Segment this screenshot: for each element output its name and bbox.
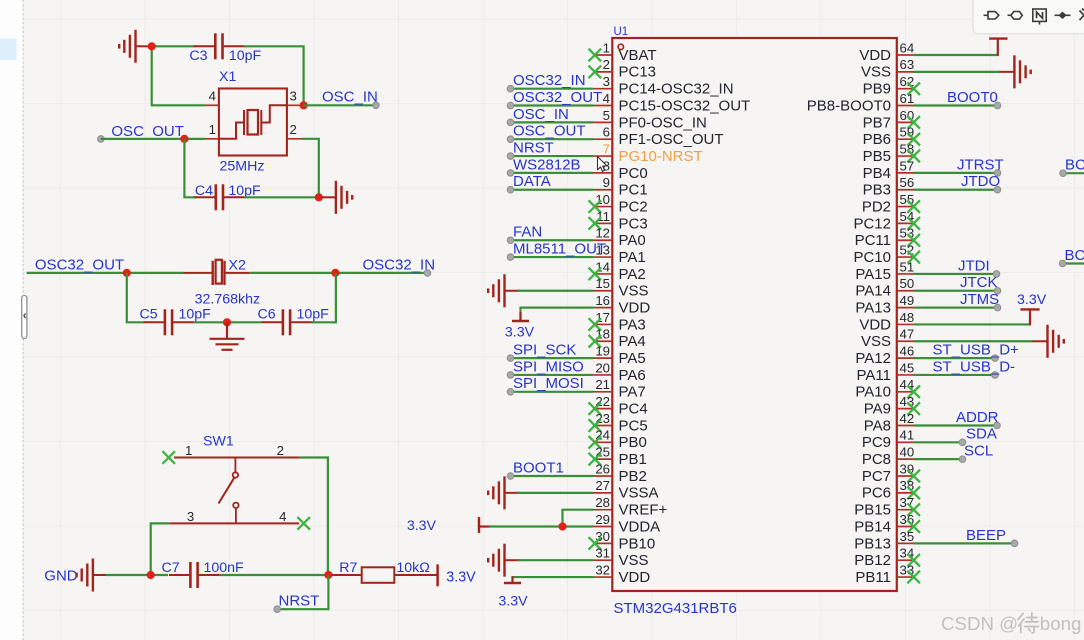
- U1 pin 54 PC12: [897, 222, 914, 224]
- svg-text:C4: C4: [195, 183, 213, 199]
- svg-text:42: 42: [900, 411, 915, 426]
- wire C7 to R7 node: [219, 574, 332, 576]
- port BOOT1: [507, 473, 514, 480]
- svg-text:PC15-OSC32_OUT: PC15-OSC32_OUT: [619, 97, 751, 114]
- ground (X1/C3 top-left): [119, 30, 151, 63]
- wire C3 junction to X1 pin4: [152, 46, 205, 105]
- U1 pin 63 VSS: [897, 71, 914, 73]
- port ST_USB_D-: [992, 372, 999, 379]
- wire down to C4: [184, 139, 196, 197]
- U1 pin1 marker: [618, 44, 623, 49]
- wire SW1 pin3 to GND node: [151, 523, 169, 572]
- U1 pin 29 VDDA: [593, 526, 612, 528]
- port OSC32_IN: [507, 85, 514, 92]
- wire SW1 pin2 to NRST node: [299, 458, 328, 573]
- U1 pin 32 VDD: [593, 576, 612, 578]
- svg-text:GND: GND: [44, 567, 78, 584]
- svg-text:PC8: PC8: [862, 451, 891, 468]
- svg-text:PA2: PA2: [619, 266, 646, 283]
- svg-text:12: 12: [595, 226, 610, 241]
- U1 pin 18 PA4: [593, 340, 612, 342]
- U1 pin 33 PB11: [897, 576, 914, 578]
- X1 pin 4: [205, 104, 219, 106]
- svg-text:JTCK: JTCK: [960, 274, 998, 291]
- U1 pin 20 PA6: [593, 374, 612, 376]
- port ML8511_OUT: [507, 254, 514, 261]
- U1 pin 60 PB7: [897, 121, 914, 123]
- port OSC_OUT: [507, 136, 514, 143]
- svg-text:ML8511_OUT: ML8511_OUT: [513, 240, 606, 257]
- svg-text:PC13: PC13: [619, 64, 657, 81]
- junction (C5/C6/gnd): [223, 318, 231, 326]
- svg-text:NRST: NRST: [513, 139, 554, 156]
- svg-text:32: 32: [595, 562, 610, 577]
- junction (gnd/SW1 pin3/C7): [147, 571, 155, 579]
- U1 pin 8 PC0: [593, 172, 612, 174]
- svg-text:3.3V: 3.3V: [407, 518, 437, 534]
- junction (pin3/OSC_IN): [300, 101, 308, 109]
- U1 pin 64 VDD: [897, 54, 914, 56]
- svg-text:JTDI: JTDI: [958, 257, 990, 274]
- left panel edge: [0, 0, 23, 640]
- svg-text:VDD: VDD: [859, 316, 891, 333]
- no-connect pin 22: [589, 402, 602, 415]
- svg-text:SCL: SCL: [964, 443, 993, 460]
- svg-text:9: 9: [603, 175, 610, 190]
- svg-text:32.768khz: 32.768khz: [195, 291, 260, 307]
- port JTRST: [994, 170, 1001, 177]
- svg-text:35: 35: [900, 529, 915, 544]
- SW1 pin 3-4 wire: [169, 522, 299, 524]
- SW1 pin4 no-connect X: [297, 517, 310, 530]
- ground (C7): [77, 559, 109, 592]
- U1 pin 10 PC2: [593, 206, 612, 208]
- svg-text:3.3V: 3.3V: [1017, 292, 1047, 308]
- svg-text:PA15: PA15: [855, 266, 891, 283]
- svg-text:PB4: PB4: [863, 165, 891, 182]
- U1 pin 39 PC7: [897, 475, 914, 477]
- SW1 pin 1-2 wire: [174, 457, 302, 459]
- port SPI_SCK: [507, 355, 514, 362]
- port SPI_MISO: [507, 372, 514, 379]
- ground (U1 pin27 VSSA): [488, 476, 520, 509]
- port OSC32_IN: [424, 270, 431, 277]
- svg-text:PB15: PB15: [854, 502, 891, 519]
- U1 pin 4 PC15-OSC32_OUT: [593, 105, 612, 107]
- U1 pin 23 PC5: [593, 424, 612, 426]
- svg-text:OSC32_OUT: OSC32_OUT: [35, 256, 124, 273]
- U1 pin 5 PF0-OSC_IN: [593, 121, 612, 123]
- U1 pin 36 PB14: [897, 526, 914, 528]
- U1 pin 15 VSS: [593, 290, 612, 292]
- wire SPI_MISO to pin 20: [511, 374, 594, 376]
- svg-text:1: 1: [185, 443, 192, 458]
- svg-text:40: 40: [900, 445, 915, 460]
- svg-text:PC4: PC4: [619, 401, 648, 418]
- U1 pin 62 PB9: [897, 88, 914, 90]
- svg-text:50: 50: [900, 276, 915, 291]
- svg-text:PA4: PA4: [619, 333, 646, 350]
- svg-text:PB8-BOOT0: PB8-BOOT0: [807, 97, 891, 114]
- svg-text:PA7: PA7: [619, 384, 646, 401]
- svg-text:64: 64: [900, 40, 915, 55]
- svg-text:1: 1: [209, 122, 216, 137]
- wire JTCK pin50: [914, 290, 998, 292]
- U1 pin 16 VDD: [593, 307, 612, 309]
- no-connect pin 54: [907, 217, 920, 230]
- svg-text:SPI_MISO: SPI_MISO: [513, 358, 584, 375]
- svg-text:OSC32_IN: OSC32_IN: [363, 256, 436, 273]
- svg-text:PA5: PA5: [619, 350, 646, 367]
- svg-text:SW1: SW1: [203, 433, 234, 449]
- no-connect pin 55: [907, 200, 920, 213]
- wire JTDO pin56: [914, 189, 998, 191]
- no-connect pin 23: [589, 419, 602, 432]
- svg-text:PB3: PB3: [863, 182, 891, 199]
- svg-text:PC6: PC6: [862, 485, 891, 502]
- no-connect pin 37: [907, 503, 920, 516]
- no-connect pin 24: [589, 436, 602, 449]
- svg-text:31: 31: [595, 546, 610, 561]
- svg-text:C5: C5: [140, 306, 158, 322]
- svg-text:CSDN @: CSDN @: [941, 613, 1018, 634]
- U1 pin 47 VSS: [897, 340, 914, 342]
- U1 pin 24 PB0: [593, 441, 612, 443]
- U1 pin 55 PD2: [897, 206, 914, 208]
- U1 pin 21 PA7: [593, 391, 612, 393]
- U1 pin 6 PF1-OSC_OUT: [593, 138, 612, 140]
- wire NRST from junction: [277, 575, 328, 609]
- X1 pin 3: [287, 104, 303, 106]
- wire OSC32_OUT to pin 4: [511, 104, 594, 106]
- port SCL: [959, 456, 966, 463]
- junction (pin1/C4): [180, 135, 188, 143]
- port NRST: [507, 153, 514, 160]
- U1 pin 26 PB2: [593, 475, 612, 477]
- svg-text:VBAT: VBAT: [619, 47, 657, 64]
- clipped port/wire (upper): [1063, 172, 1084, 174]
- svg-text:VDD: VDD: [619, 300, 651, 317]
- svg-text:PB12: PB12: [854, 552, 891, 569]
- svg-text:BC: BC: [1065, 156, 1084, 173]
- U1 pin 35 PB13: [897, 542, 914, 544]
- U1 pin 49 PA13: [897, 307, 914, 309]
- power 3.3V bar (VDDA): [478, 517, 481, 533]
- no-connect pin 33: [907, 571, 920, 584]
- wire X2 to OSC32_IN: [250, 272, 428, 274]
- svg-text:PA9: PA9: [864, 401, 891, 418]
- svg-text:16: 16: [595, 293, 610, 308]
- svg-text:PB1: PB1: [619, 451, 647, 468]
- svg-text:C7: C7: [161, 560, 179, 576]
- U1 pin 41 PC9: [897, 441, 914, 443]
- no-connect pin 34: [907, 554, 920, 567]
- wire WS2812B to pin 8: [511, 172, 594, 174]
- no-connect pin 52: [907, 251, 920, 264]
- ground (U1 pin15 VSS): [488, 274, 520, 307]
- U1 pin 19 PA5: [593, 357, 612, 359]
- port JTDI: [993, 271, 1000, 278]
- no-connect pin 11: [589, 217, 602, 230]
- svg-text:PC9: PC9: [862, 434, 891, 451]
- port SDA: [959, 439, 966, 446]
- svg-text:PB7: PB7: [863, 114, 891, 131]
- wire SPI_SCK to pin 19: [511, 357, 594, 359]
- svg-text:6: 6: [603, 125, 610, 140]
- svg-text:OSC_IN: OSC_IN: [513, 106, 569, 123]
- svg-text:PC1: PC1: [619, 182, 648, 199]
- svg-text:51: 51: [900, 259, 915, 274]
- port BEEP: [1011, 540, 1018, 547]
- U1 pin 22 PC4: [593, 408, 612, 410]
- svg-text:DATA: DATA: [513, 173, 551, 190]
- svg-text:BOOT1: BOOT1: [513, 459, 564, 476]
- svg-text:JTMS: JTMS: [960, 291, 999, 308]
- svg-text:JTRST: JTRST: [957, 156, 1004, 173]
- svg-text:PC14-OSC32_IN: PC14-OSC32_IN: [619, 81, 734, 98]
- U1 pin 25 PB1: [593, 458, 612, 460]
- svg-text:PC5: PC5: [619, 417, 648, 434]
- svg-text:41: 41: [900, 428, 915, 443]
- svg-text:20: 20: [595, 360, 610, 375]
- U1 pin 12 PA0: [593, 239, 612, 241]
- wire OSC32_OUT rail: [27, 272, 184, 274]
- wire FAN to pin 12: [511, 239, 594, 241]
- U1 pin 28 VREF+: [593, 509, 612, 511]
- svg-text:3.3V: 3.3V: [446, 569, 476, 585]
- no-connect pin 2: [589, 66, 602, 79]
- svg-text:PB10: PB10: [619, 535, 656, 552]
- capacitor C3: [194, 33, 244, 59]
- U1 pin 52 PC10: [897, 256, 914, 258]
- resistor R7: [332, 567, 438, 583]
- U1 pin 38 PC6: [897, 492, 914, 494]
- no-connect pin 53: [907, 234, 920, 247]
- U1 pin 48 VDD: [897, 323, 914, 325]
- U1 pin 44 PA10: [897, 391, 914, 393]
- svg-text:PB2: PB2: [619, 468, 647, 485]
- svg-text:PB0: PB0: [619, 434, 647, 451]
- wire down to C5: [127, 273, 144, 322]
- svg-text:OSC32_IN: OSC32_IN: [513, 72, 586, 89]
- svg-text:PA6: PA6: [619, 367, 646, 384]
- svg-text:10kΩ: 10kΩ: [396, 560, 429, 576]
- svg-text:PA13: PA13: [855, 300, 891, 317]
- svg-text:29: 29: [595, 512, 610, 527]
- svg-text:25MHz: 25MHz: [220, 159, 265, 175]
- U1 pin 42 PA8: [897, 424, 914, 426]
- U1 pin 30 PB10: [593, 542, 612, 544]
- U1 pin 27 VSSA: [593, 492, 612, 494]
- svg-text:45: 45: [900, 360, 915, 375]
- no-connect pin 1: [589, 49, 602, 62]
- svg-text:OSC32_OUT: OSC32_OUT: [513, 89, 602, 106]
- wire SDA pin41: [914, 441, 963, 443]
- svg-text:15: 15: [595, 276, 610, 291]
- svg-text:PC2: PC2: [619, 198, 648, 215]
- svg-text:63: 63: [900, 57, 915, 72]
- ground (C4): [321, 181, 352, 214]
- U1 pin 17 PA3: [593, 323, 612, 325]
- svg-text:46: 46: [900, 344, 915, 359]
- ground (U1 pin31 VSS): [488, 544, 520, 577]
- svg-text:10pF: 10pF: [229, 48, 262, 64]
- U1 pin 53 PC11: [897, 239, 914, 241]
- junction (C4/pin2/gnd): [315, 193, 323, 201]
- svg-text:PC0: PC0: [619, 165, 648, 182]
- svg-text:bong: bong: [1040, 613, 1082, 634]
- port OSC32_OUT: [507, 102, 514, 109]
- U1 pin 34 PB12: [897, 559, 914, 561]
- port SPI_MOSI: [507, 389, 514, 396]
- no-connect pin 58: [907, 150, 920, 163]
- svg-text:PA0: PA0: [619, 232, 646, 249]
- svg-text:OSC_OUT: OSC_OUT: [111, 123, 184, 140]
- svg-text:10pF: 10pF: [179, 306, 212, 322]
- junction (VREF+/VDDA): [558, 522, 566, 530]
- wire BEEP pin35: [914, 542, 1015, 544]
- svg-text:PA10: PA10: [855, 384, 891, 401]
- svg-text:2: 2: [290, 122, 297, 137]
- svg-text:BOOT0: BOOT0: [947, 89, 998, 106]
- U1 pin 56 PB3: [897, 189, 914, 191]
- svg-text:61: 61: [900, 91, 915, 106]
- U1 pin 37 PB15: [897, 509, 914, 511]
- svg-text:PG10-NRST: PG10-NRST: [619, 148, 703, 165]
- svg-text:28: 28: [595, 495, 610, 510]
- wire C6 to OSC32_IN rail: [312, 273, 336, 322]
- U1 pin 9 PC1: [593, 189, 612, 191]
- svg-text:PB5: PB5: [863, 148, 891, 165]
- wire SCL pin40: [914, 458, 963, 460]
- wire ST_USB_D- pin45: [914, 374, 996, 376]
- svg-text:VSS: VSS: [619, 552, 649, 569]
- svg-text:4: 4: [603, 91, 610, 106]
- power 3.3V (U1 pin16 VDD): [521, 308, 594, 321]
- port BOOT0: [994, 102, 1001, 109]
- svg-text:BEEP: BEEP: [966, 527, 1006, 544]
- junction (C7/SW1 pin2/R7/NRST): [324, 571, 332, 579]
- wire ML8511_OUT to pin 13: [511, 256, 594, 258]
- wire OSC_IN to pin 5: [511, 121, 594, 123]
- power 3.3V bar (R7): [436, 564, 439, 586]
- port OSC_IN: [373, 102, 380, 109]
- svg-text:4: 4: [279, 509, 286, 524]
- wire pin2 down: [302, 139, 319, 198]
- svg-text:PA8: PA8: [864, 417, 891, 434]
- port FAN: [507, 237, 514, 244]
- svg-text:7: 7: [603, 141, 610, 156]
- svg-text:VDDA: VDDA: [619, 518, 661, 535]
- svg-text:PA1: PA1: [619, 249, 646, 266]
- U1 pin 58 PB5: [897, 155, 914, 157]
- port ADDR: [994, 422, 1001, 429]
- wire C5 to gnd junction: [194, 321, 262, 323]
- svg-text:C3: C3: [189, 48, 207, 64]
- no-connect pin 18: [589, 335, 602, 348]
- no-connect pin 30: [589, 537, 602, 550]
- port JTMS: [994, 304, 1001, 311]
- svg-text:WS2812B: WS2812B: [513, 156, 581, 173]
- panel collapse handle: [22, 296, 27, 339]
- wire JTDI pin51: [914, 273, 997, 275]
- wire JTRST pin57: [914, 172, 998, 174]
- wire C3 to OSC_IN node: [244, 46, 304, 104]
- wire BOOT0 pin61: [914, 104, 998, 106]
- no-connect pin 14: [589, 268, 602, 281]
- U1 pin 7 PG10-NRST: [593, 155, 612, 157]
- svg-text:PB11: PB11: [855, 569, 891, 586]
- U1 pin 61 PB8-BOOT0: [897, 105, 914, 107]
- svg-text:JTDO: JTDO: [961, 173, 1000, 190]
- junction (X2/C6): [331, 269, 339, 277]
- svg-text:SPI_MOSI: SPI_MOSI: [513, 375, 584, 392]
- no-connect pin 59: [907, 133, 920, 146]
- svg-text:U1: U1: [614, 26, 629, 38]
- svg-text:OSC_IN: OSC_IN: [322, 89, 378, 106]
- wire gnd to C7: [106, 574, 168, 576]
- wire C3 left: [149, 45, 196, 47]
- svg-text:3.3V: 3.3V: [498, 593, 528, 609]
- capacitor C7: [169, 562, 219, 588]
- wire DATA to pin 9: [511, 189, 594, 191]
- svg-text:PF1-OSC_OUT: PF1-OSC_OUT: [619, 131, 724, 148]
- svg-text:PC12: PC12: [853, 215, 891, 232]
- no-connect pin 36: [907, 520, 920, 533]
- IC U1 body STM32G431RBT6: [612, 38, 897, 591]
- clipped port/wire (lower): [1063, 262, 1084, 264]
- wire BOOT1 to pin 26: [511, 475, 594, 477]
- no-connect pin 10: [589, 200, 602, 213]
- capacitor C6: [261, 309, 311, 335]
- crystal X1 body: [219, 89, 287, 156]
- svg-text:PF0-OSC_IN: PF0-OSC_IN: [619, 114, 707, 131]
- U1 pin 50 PA14: [897, 290, 914, 292]
- wire JTMS pin49: [914, 307, 998, 309]
- svg-text:21: 21: [595, 377, 610, 392]
- svg-text:C6: C6: [258, 306, 276, 322]
- wire ADDR pin42: [914, 424, 998, 426]
- svg-text:VDD: VDD: [619, 569, 651, 586]
- port OSC_OUT: [98, 136, 105, 143]
- SW1 contacts: [219, 458, 239, 524]
- svg-text:3: 3: [187, 509, 194, 524]
- no-connect pin 60: [907, 116, 920, 129]
- port JTCK: [994, 287, 1001, 294]
- svg-text:2: 2: [277, 443, 284, 458]
- U1 pin 46 PA12: [897, 357, 914, 359]
- U1 pin 13 PA1: [593, 256, 612, 258]
- svg-text:PB14: PB14: [854, 518, 891, 535]
- svg-text:OSC_OUT: OSC_OUT: [513, 123, 586, 140]
- svg-text:VDD: VDD: [859, 47, 891, 64]
- capacitor C4: [194, 184, 244, 210]
- svg-text:PD2: PD2: [862, 198, 891, 215]
- U1 pin 57 PB4: [897, 172, 914, 174]
- wire OSC32_IN to pin 3: [511, 88, 594, 90]
- SW1 pin1 no-connect X: [162, 451, 175, 464]
- svg-text:19: 19: [595, 344, 610, 359]
- svg-text:5: 5: [603, 108, 610, 123]
- U1 pin 40 PC8: [897, 458, 914, 460]
- svg-text:STM32G431RBT6: STM32G431RBT6: [614, 600, 737, 617]
- X1 crystal symbol: [219, 105, 287, 139]
- wire ST_USB_D+ pin46: [914, 357, 996, 359]
- svg-text:49: 49: [900, 293, 915, 308]
- svg-text:PC3: PC3: [619, 215, 648, 232]
- svg-text:2: 2: [603, 57, 610, 72]
- svg-text:56: 56: [900, 175, 915, 190]
